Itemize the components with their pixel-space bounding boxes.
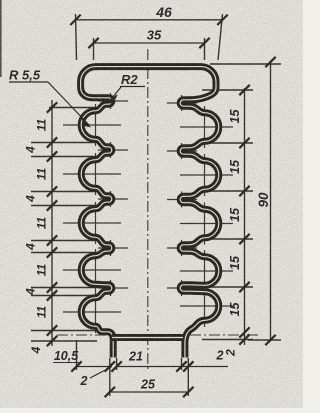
vertical axis centerline xyxy=(147,49,149,369)
crest center marks left xyxy=(63,104,121,333)
vessel bottom wall band xyxy=(112,334,183,341)
leader R2 xyxy=(109,87,146,104)
leader R5,5 xyxy=(9,82,90,127)
dimension lines xyxy=(52,20,271,392)
leader wall thickness 2 (bottom left) xyxy=(90,367,112,379)
extension lines xyxy=(31,14,281,396)
fold tip marks xyxy=(98,93,197,296)
dimension slash ticks xyxy=(47,15,276,398)
crest center marks right xyxy=(180,106,233,327)
scan artifact left edge xyxy=(0,0,2,77)
horizontal axis centerline xyxy=(57,334,259,336)
bellows vessel wall section outline xyxy=(81,67,219,358)
